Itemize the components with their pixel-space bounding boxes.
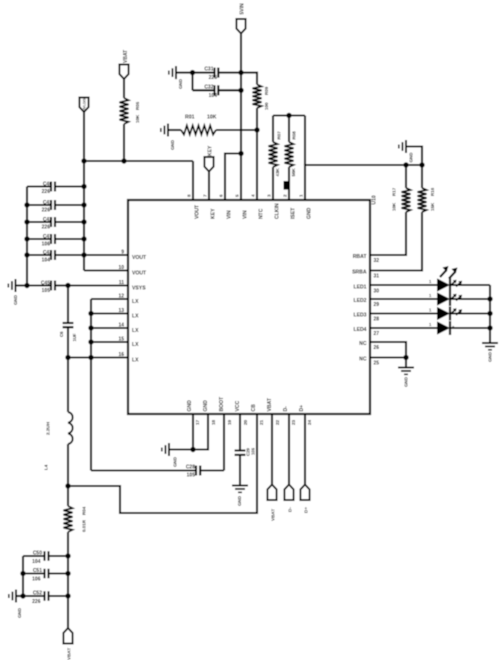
svg-text:3: 3 [266,194,271,197]
junction bottom rail [20,571,25,576]
svg-text:43K: 43K [275,167,280,176]
wire rail down to pin 8 [192,161,194,200]
node GND bus / R17 [403,162,408,167]
net flag UVLO/S [79,98,88,113]
svg-text:106: 106 [32,577,41,583]
svg-text:LED4: LED4 [353,327,366,333]
junction LED rail [487,296,492,301]
wire pin 10 VOUT [84,269,128,271]
svg-text:226: 226 [42,207,51,213]
wire VIN branch to pin 6 [225,154,241,201]
resistor R07 43K (CLKIN) [269,116,282,201]
svg-text:GND: GND [187,400,193,412]
wire GND bus from pin 1 [305,165,422,200]
IC pin 25 (NC) right label [359,357,379,367]
IC pin 26 (NC) right label [359,341,379,351]
IC pin 32 (RBAT) right label [353,254,380,264]
wire pin 16 LX row [68,356,128,358]
wire pin 25 NC [370,356,406,358]
svg-text:VOUT: VOUT [132,255,147,261]
junction left rail [24,252,29,257]
svg-text:C40: C40 [43,181,52,187]
junction right rail [81,219,86,224]
svg-text:C45: C45 [41,280,50,286]
capacitor C47 106 [27,234,84,248]
svg-text:VSYS: VSYS [132,286,146,292]
svg-text:RBAT: RBAT [353,254,368,260]
svg-text:C51: C51 [33,568,42,574]
svg-text:GND: GND [203,400,209,412]
svg-text:1: 1 [298,194,303,197]
wire LX node down [67,358,69,413]
svg-text:LED3: LED3 [353,313,366,319]
svg-text:226: 226 [209,75,218,81]
wire pin 9 VOUT [84,254,128,256]
node LX / L4 [65,355,70,360]
svg-text:R09: R09 [264,86,269,95]
power flag VBAT (bottom) [63,628,72,660]
IC pin 3 (CLKIN) top label [266,194,280,219]
wire 5VIN flag to node [240,34,242,73]
wire NTC node to pin 4 [256,130,258,200]
resistor R08 56K (ISET) [285,116,297,201]
svg-text:10K: 10K [207,115,217,121]
svg-text:C6: C6 [59,331,64,337]
svg-text:6: 6 [218,194,223,197]
svg-text:C43: C43 [43,250,52,256]
net flag D- [284,485,293,513]
svg-text:20: 20 [243,419,248,425]
wire pin 26 NC [370,342,406,358]
capacitor C41 226 [27,200,84,214]
svg-text:UVLO/S: UVLO/S [83,98,87,111]
junction right rail [81,236,86,241]
ground (R01) [161,124,181,151]
IC pin 10 (VOUT) left label [118,265,147,277]
wire pin 23 D- [288,414,290,485]
capacitor C28 105 (BOOT) [91,464,224,478]
capacitor C42 226 [27,217,84,231]
IC pin 19 (BOOT) bottom label [219,396,232,425]
svg-text:LX: LX [132,342,139,348]
resistor R01 10K (NTC to GND) [181,115,257,135]
junction LX bus [88,311,93,316]
IC pin 21 (CB) bottom label [251,404,264,425]
svg-text:GND: GND [409,152,414,163]
wire LX pin [91,327,128,329]
svg-text:GND: GND [13,294,18,305]
svg-text:BOOT: BOOT [219,396,225,412]
wire pin 22 VBAT [271,414,273,485]
node NC [403,355,408,360]
wire pin 21 CB to sense node [68,414,257,513]
svg-text:105: 105 [251,447,256,455]
power flag 5VIN [236,3,245,34]
node C52 [65,593,70,598]
svg-text:R04: R04 [82,506,87,515]
resistor R04 0.01R (sense) [64,486,87,556]
svg-text:C47: C47 [43,234,52,240]
svg-text:GND: GND [170,139,175,150]
junction right rail [81,252,86,257]
capacitor C26 1UF [59,286,77,358]
capacitor C45 105 (VSYS) [27,280,68,294]
IC pin 24 (D+) bottom label [299,405,312,425]
svg-text:4: 4 [250,194,255,197]
svg-text:31: 31 [374,274,380,280]
resistor R16 15K (SRBA) [370,165,435,271]
wire bottom cap left rail [22,556,24,596]
IC pin 7 (KEY) top label [202,194,216,219]
wire resistor top bus [273,114,305,116]
svg-text:R08: R08 [292,131,297,140]
wire pin 24 D+ [304,414,306,485]
ground (top right) [399,140,422,165]
svg-text:C52: C52 [33,591,42,597]
svg-text:GND: GND [307,207,313,219]
svg-text:ISET: ISET [291,207,297,219]
wire pin 18 GND [193,414,208,450]
capacitor C50 104 [23,551,68,566]
svg-text:LX: LX [132,299,139,305]
ground (top, near C31) [169,66,193,89]
svg-text:5: 5 [234,194,239,197]
svg-text:D-: D- [287,507,292,512]
LED D3 [370,307,490,321]
svg-text:NTC: NTC [259,208,265,219]
IC pin 17 (GND) bottom label [187,400,200,425]
IC pin 12 (LX) left label [118,294,139,306]
capacitor C32 104 [193,84,242,99]
node C31/C32 GND side [190,70,195,75]
svg-text:D+: D+ [299,405,305,412]
junction left rail [24,219,29,224]
wire VSYS to pin 11 [68,284,128,286]
svg-text:10K: 10K [135,114,140,123]
svg-text:VIN: VIN [243,210,249,219]
svg-text:KEY: KEY [211,208,217,219]
capacitor C29 105 (VCC) [235,414,256,486]
svg-text:LX: LX [132,314,139,320]
svg-text:5VIN: 5VIN [239,3,245,15]
svg-text:17: 17 [195,419,200,425]
svg-text:U10: U10 [371,195,377,204]
node cap bank rail GND [24,283,29,288]
node 5VIN/C32 [238,88,243,93]
wire cap bank right rail [83,161,85,271]
svg-text:100: 100 [264,102,269,110]
svg-text:CB: CB [251,404,257,412]
junction LED rail [487,311,492,316]
LED D4 [370,321,490,335]
capacitor C31 226 [193,67,242,82]
junction left rail [24,202,29,207]
svg-text:C32: C32 [204,84,213,90]
IC pin 14 (LX) left label [118,323,139,335]
junction bottom rail GND [20,593,25,598]
wire LX pin [91,341,128,343]
svg-text:R16: R16 [430,187,435,196]
junction LX bus pin16 [88,355,93,360]
svg-text:226: 226 [32,599,41,605]
wire BOOT cap to pin 19 [223,414,225,471]
IC pin 11 (VSYS) left label [119,280,146,292]
IC pin 4 (NTC) top label [250,194,264,219]
svg-text:26: 26 [374,345,380,351]
svg-text:7: 7 [202,194,207,197]
wire NC to ground [405,358,407,368]
junction LX bus [88,339,93,344]
IC pin 31 (SRBA) right label [352,270,379,280]
wire battery node down [67,556,69,628]
IC pin 15 (LX) left label [118,337,139,349]
svg-text:VIN: VIN [227,210,233,219]
svg-text:15K: 15K [430,202,435,211]
svg-text:LX: LX [132,358,139,364]
net flag D+ [300,485,309,514]
wire LX pin [91,312,128,314]
LED D2 [370,292,490,306]
node VSYS branch [65,283,70,288]
wire LX bus [90,299,92,471]
node UVLO rail [81,158,86,163]
svg-text:18: 18 [211,419,216,425]
capacitor C52 226 [23,591,68,606]
ground (VSYS cap) [8,279,27,305]
ground (NC pins) [398,368,414,388]
node C50 [65,553,70,558]
svg-text:10K: 10K [392,202,397,211]
junction right rail [81,184,86,189]
svg-text:LED2: LED2 [353,298,366,304]
node GND bus / R16 [419,162,424,167]
svg-text:0.01R: 0.01R [82,519,87,532]
wire LED cathode rail [489,285,491,343]
svg-text:VOUT: VOUT [132,271,147,277]
IC pin 13 (LX) left label [118,308,139,320]
IC pin 1 (GND) top label [298,194,312,219]
LED D1 [370,278,490,292]
svg-text:19: 19 [227,419,232,425]
LED emission arrows (big) [440,266,458,279]
svg-text:105: 105 [42,288,51,294]
svg-text:C31: C31 [204,67,213,73]
svg-text:VCC: VCC [235,400,241,411]
IC pin 27 (LED4) right label [353,327,379,337]
IC pin 23 (D-) bottom label [283,406,296,425]
svg-text:LED1: LED1 [353,285,366,291]
svg-text:GND: GND [237,495,242,506]
capacitor C40 226 [27,181,84,195]
IC pin 8 (VOUT) top label [186,194,200,219]
junction left rail [24,236,29,241]
resistor R05 10K (VBAT pull) [120,79,141,161]
svg-text:28: 28 [374,317,380,323]
svg-text:D-: D- [283,406,289,412]
node R08 top [286,113,291,118]
junction LX bus [88,325,93,330]
svg-text:L4: L4 [44,464,49,470]
IC pin 16 (LX) left label [118,352,139,364]
svg-text:2: 2 [282,194,287,197]
svg-text:GND: GND [178,78,183,89]
svg-text:VBAT: VBAT [66,648,71,660]
svg-text:1UF: 1UF [72,333,77,341]
svg-text:VBAT: VBAT [123,50,129,63]
svg-text:106: 106 [42,241,51,247]
node NTC [254,127,259,132]
IC pin 18 (GND) bottom label [203,400,216,425]
wire 5VIN down to pin 5 [240,73,242,200]
svg-text:29: 29 [374,302,380,308]
IC pin 22 (VBAT) bottom label [267,397,280,425]
svg-text:C50: C50 [33,551,42,557]
svg-text:C28: C28 [186,464,195,470]
ground (pins 17/18) [162,443,193,467]
svg-text:R07: R07 [277,131,282,140]
svg-text:GND: GND [488,351,493,362]
svg-text:23: 23 [291,419,296,425]
IC pin 28 (LED3) right label [353,313,379,323]
svg-text:GND: GND [17,607,22,618]
svg-text:CLKIN: CLKIN [275,203,281,219]
svg-text:24: 24 [307,419,312,425]
node C51 [65,571,70,576]
svg-text:KEY: KEY [207,145,213,156]
IC pin 6 (VIN) top label [218,194,232,219]
wire GND drop to C32 [191,73,193,91]
svg-text:104: 104 [32,559,41,565]
IC pin 5 (VIN) top label [234,194,248,219]
svg-text:25: 25 [374,361,380,367]
svg-text:2.2UH: 2.2UH [46,421,51,435]
svg-text:NC: NC [359,341,367,347]
svg-text:R17: R17 [392,187,397,196]
wire VOUT top rail [84,160,193,162]
node pin17/18 GND [190,447,195,452]
svg-text:C41: C41 [43,200,52,206]
svg-text:NC: NC [359,357,367,363]
node 5VIN/C31 [238,70,243,75]
svg-text:D+: D+ [303,507,308,513]
wire R07/R08 bus to GND bus [304,116,306,166]
svg-text:LX: LX [132,328,139,334]
wire L4 to sense node [67,444,69,486]
svg-text:56K: 56K [291,167,296,176]
resistor R09 100 (5VIN to NTC) [241,73,269,130]
IC pin 29 (LED2) right label [353,298,379,308]
ground (bottom left) [9,590,23,619]
IC pin 30 (LED1) right label [353,285,379,295]
wire cap bank left rail [26,187,28,286]
svg-text:VBAT: VBAT [270,509,275,521]
svg-text:226: 226 [42,189,51,195]
op-amp-style IC U10 body [128,200,370,414]
junction LED rail [487,325,492,330]
IC pin 9 (VOUT) left label [121,250,147,262]
svg-text:C42: C42 [43,217,52,223]
svg-text:R01: R01 [185,115,195,121]
wire pin 17 GND [192,414,194,450]
svg-text:104: 104 [209,93,218,99]
svg-text:22: 22 [275,419,280,425]
svg-text:32: 32 [374,258,380,264]
svg-text:21: 21 [259,419,264,425]
net flag VBAT (pin22) [267,485,276,522]
IC U10 reference designator [371,195,377,204]
capacitor C51 106 [23,568,68,583]
wire pin 12 LX [91,298,128,300]
inductor L4 2.2UH [44,412,73,470]
junction right rail [81,202,86,207]
net flag KEY [204,145,213,171]
power flag VBAT (top) [119,50,128,79]
svg-text:8: 8 [186,194,191,197]
svg-text:105: 105 [187,472,196,478]
node VIN branch [238,151,243,156]
svg-text:R05: R05 [135,101,140,110]
svg-text:VOUT: VOUT [195,204,201,219]
svg-text:VBAT: VBAT [267,397,273,411]
node R05 bottom [121,158,126,163]
wire UVLO to rail [83,112,85,161]
IC pin 20 (VCC) bottom label [235,400,248,425]
node L4/R04/CB [65,483,70,488]
net label box pin2 [284,181,290,190]
ground (LED rail) [482,343,498,362]
ground (VCC cap) [232,486,248,507]
svg-text:27: 27 [374,331,380,337]
svg-text:104: 104 [42,257,51,263]
svg-text:30: 30 [374,289,380,295]
IC pin 2 (ISET) top label [282,194,296,219]
svg-text:GND: GND [404,376,409,387]
svg-text:GND: GND [173,456,178,467]
resistor R17 10K (RBAT) [370,165,411,255]
svg-text:SRBA: SRBA [352,270,367,276]
svg-text:226: 226 [42,224,51,230]
wire KEY to pin 7 [208,172,210,201]
capacitor C43 104 [27,250,84,263]
